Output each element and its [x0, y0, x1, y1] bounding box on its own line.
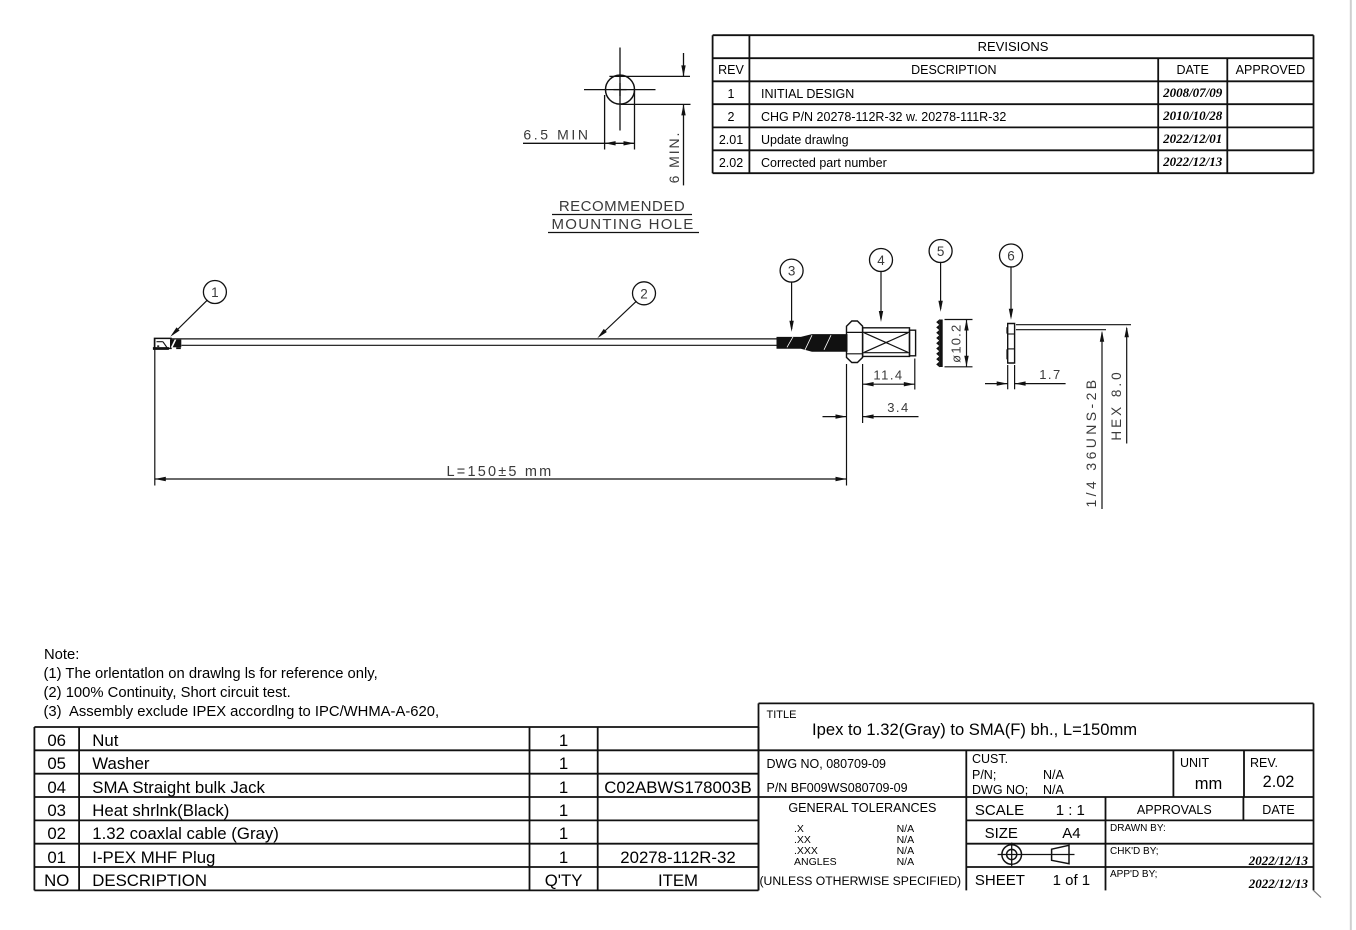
scanned page right edge line [1350, 0, 1352, 930]
mounting hole detail: hole circle [606, 75, 635, 104]
SMA barrel cross (X) marking [864, 333, 908, 353]
title block UNIT label [1180, 756, 1209, 770]
title block rev value [1263, 773, 1295, 792]
dim 11.4 dimension line with arrows [863, 383, 915, 385]
dim L=150 dimension line with arrows [155, 478, 847, 480]
title block vertical divider UNIT [1172, 750, 1174, 797]
title block vertical divider REV [1243, 750, 1245, 797]
CHKD date [1249, 854, 1308, 869]
I-PEX plug bottom contact bar [153, 347, 169, 350]
svg-text:HEX 8.0: HEX 8.0 [1109, 369, 1124, 440]
third angle projection symbol - circles [1002, 845, 1022, 865]
balloon 5 leader line with arrow [940, 262, 942, 309]
balloon 1 leader line with arrow [173, 300, 208, 335]
svg-text:2: 2 [640, 286, 648, 301]
revisions header DESCRIPTION [911, 63, 996, 77]
balloon 1 (I-PEX MHF plug callout) [203, 281, 226, 304]
svg-text:RECOMMENDED: RECOMMENDED [559, 198, 685, 215]
title block row line under TITLE [759, 749, 1314, 751]
svg-text:3: 3 [788, 264, 796, 279]
projection symbol horizontal axis line [998, 854, 1075, 856]
BOM row 04 [47, 778, 66, 797]
svg-text:L=150±5 mm: L=150±5 mm [447, 464, 554, 480]
dim 11.4 extension line right [914, 359, 916, 390]
I-PEX plug inner detail [157, 341, 163, 343]
mounting hole horizontal centerline [584, 89, 656, 91]
revision row 1 [728, 87, 735, 101]
projection symbol vertical axis line [1011, 843, 1013, 867]
coaxial cable bottom line [182, 344, 778, 346]
dim 1.7 extension line left [1007, 365, 1009, 389]
dim dia10.2 extension line top [945, 319, 973, 321]
heat shrink white streaks [787, 337, 793, 348]
SIZE label [985, 825, 1018, 842]
DRAWN BY label [1110, 823, 1166, 835]
balloon 5 (washer callout) [929, 240, 952, 263]
dim 6 MIN dimension line upper segment with down arrow [683, 53, 685, 76]
SMA hex flange (front) outline [847, 321, 863, 363]
svg-text:6.5 MIN: 6.5 MIN [523, 127, 590, 143]
title block main title [812, 720, 1137, 739]
svg-text:3.4: 3.4 [887, 400, 910, 415]
dim 6 MIN extension line top [609, 75, 690, 77]
nut reference line upper (to HEX 8.0) [1016, 324, 1131, 326]
svg-text:MOUNTING HOLE: MOUNTING HOLE [552, 216, 695, 233]
balloon 6 leader line with arrow [1010, 266, 1012, 317]
washer (external tooth, side view) [940, 320, 943, 368]
title block vertical divider left cell [965, 750, 967, 890]
coaxial cable top line [171, 338, 778, 340]
revision row 2 [728, 110, 735, 124]
balloon 4 (SMA jack callout) [870, 249, 893, 272]
BOM table grid [34, 726, 758, 728]
note line 2 [44, 685, 291, 702]
title block DWG NO label [972, 783, 1028, 797]
revision row 2.02 [719, 156, 743, 170]
svg-text:6: 6 [1007, 249, 1015, 264]
dim 6 MIN extension line bottom [621, 103, 691, 105]
svg-text:1.7: 1.7 [1039, 367, 1062, 382]
thread callout 1/4 36UNS-2B leader line with arrow [1101, 333, 1103, 510]
projection symbol cone (frustum) [1052, 845, 1069, 863]
HEX 8.0 leader line with arrow [1126, 328, 1128, 444]
note line 1 [44, 666, 378, 683]
dim 1.7 dimension line left with arrow [985, 383, 1008, 385]
svg-text:5: 5 [937, 244, 945, 259]
SMA threaded barrel outline [863, 328, 910, 357]
revisions header DATE [1176, 63, 1208, 77]
dim 3.4 dimension line left part with arrow [823, 416, 847, 418]
SMA hex flange facet lines [847, 331, 863, 333]
svg-text:4: 4 [877, 253, 885, 268]
balloon 4 leader line with arrow [880, 271, 882, 320]
title block row line under DWG NO [759, 796, 1314, 798]
title block TITLE label [767, 709, 797, 722]
SHEET label [975, 872, 1025, 889]
tolerance rows [794, 823, 804, 835]
revisions table outer border and grid [713, 34, 1314, 36]
dim 6.5 MIN extension line left [604, 95, 606, 150]
revisions table title [978, 40, 1049, 55]
scan artifact corner tick [1314, 890, 1322, 897]
title block unit value mm [1195, 775, 1223, 794]
svg-text:6 MIN.: 6 MIN. [666, 131, 682, 184]
revisions header APPROVED [1236, 63, 1305, 77]
title block GENERAL TOLERANCES [788, 801, 936, 815]
balloon 3 (heat shrink callout) [780, 259, 803, 282]
DATE header [1262, 803, 1294, 817]
dim 1.7 dimension line right with arrow [1015, 383, 1066, 385]
nut reference line lower (to thread callout) [1016, 329, 1106, 331]
dim dia10.2 dimension line with arrows [966, 320, 968, 367]
hex nut (side view) [1008, 324, 1015, 364]
mounting hole center cross [614, 89, 627, 91]
revision row 2.01 [719, 133, 743, 147]
balloon 2 (coaxial cable callout) [633, 282, 656, 305]
dim 11.4 extension line left [862, 364, 864, 423]
title block REV label [1250, 756, 1278, 770]
title block row line under SCALE [966, 819, 1313, 821]
title block outer border [759, 702, 1314, 704]
svg-text:1: 1 [211, 285, 219, 300]
svg-text:ø10.2: ø10.2 [949, 324, 964, 363]
dim L=150 extension line left [154, 338, 156, 485]
SCALE label [975, 802, 1024, 819]
APPD BY label [1110, 869, 1157, 881]
svg-text:1/4 36UNS-2B: 1/4 36UNS-2B [1083, 376, 1099, 507]
I-PEX MHF plug body outline [155, 338, 172, 348]
title block P/N label [972, 768, 996, 782]
balloon 3 leader line with arrow [791, 281, 793, 329]
dim 1.7 extension line right [1014, 365, 1016, 389]
dim 6.5 MIN extension line right [634, 91, 636, 150]
BOM row 05 [47, 754, 66, 773]
title block DWG NO [767, 757, 887, 771]
title block vertical divider SCALE column / APPROVALS [1105, 797, 1107, 890]
revisions table DATE/APPROVED column dividers [1157, 58, 1159, 173]
note heading [44, 647, 79, 664]
balloon 2 leader line with arrow [600, 301, 637, 336]
BOM row 01 [47, 848, 66, 867]
hex flange left extension line (long) [846, 364, 848, 486]
revisions header REV [718, 63, 744, 77]
dim 3.4 dimension line right part with arrow [863, 416, 919, 418]
dim 6.5 MIN dimension line with arrows [523, 142, 635, 144]
APPROVALS header [1137, 803, 1212, 817]
mounting hole vertical centerline [619, 48, 621, 131]
note line 3 [44, 704, 440, 721]
title block vertical divider DATE [1242, 797, 1244, 820]
title block P/N [767, 781, 908, 795]
BOM row 03 [47, 801, 66, 820]
title block CUST [972, 752, 1008, 766]
svg-text:11.4: 11.4 [873, 368, 903, 383]
APPD date [1249, 877, 1308, 892]
SMA barrel end cap [910, 330, 916, 356]
BOM row 06 [47, 731, 66, 750]
balloon 6 (nut callout) [1000, 244, 1023, 267]
unless otherwise specified [760, 874, 962, 888]
title block row line under projection / CHK'D BY [966, 866, 1313, 868]
CHKD BY label [1110, 846, 1159, 858]
dim dia10.2 extension line bottom [945, 366, 973, 368]
title block row line under SIZE / DRAWN BY [966, 843, 1313, 845]
I-PEX plug rear black body [170, 340, 181, 348]
BOM row NO [44, 871, 69, 890]
SMA barrel inner lines [863, 331, 910, 333]
BOM row 02 [47, 824, 66, 843]
heat shrink (black) tapered sleeve [777, 335, 847, 352]
dim 6 MIN dimension line lower segment with up arrow [683, 104, 685, 185]
